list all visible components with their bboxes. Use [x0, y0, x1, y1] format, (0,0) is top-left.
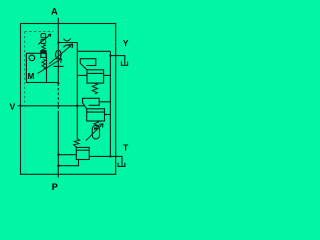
arrow2 through variable orifice [49, 44, 73, 64]
dashed inner box top edge [25, 30, 54, 32]
cartridge valve 2: flag [83, 98, 100, 109]
valve1 left port line [77, 74, 87, 76]
valve3 feed line from P [58, 154, 76, 156]
svg-text:P: P [52, 182, 58, 192]
closing bar below orifice [53, 65, 63, 67]
svg-text:V: V [10, 101, 16, 111]
Y tank symbol [121, 61, 127, 65]
dashed inner box left edge (upper) [24, 31, 26, 106]
M-box bottom edge extension to main line [47, 82, 59, 84]
dashed inner box left edge (lower, faint) [24, 106, 26, 174]
svg-text:A: A [51, 6, 58, 16]
main line solid lower section to P [57, 112, 59, 178]
V port line [18, 105, 85, 107]
solenoid element on box top [41, 51, 46, 58]
valve3 bottom return to P-line [58, 160, 78, 166]
main valve 3: body [76, 147, 89, 159]
valve2 pilot connector to riser [99, 101, 110, 103]
small variable orifice above M-box (arcs) [41, 34, 46, 38]
outer manifold box [21, 24, 116, 175]
main line dashed pilot section [57, 83, 59, 112]
valve1 spring [92, 83, 97, 94]
pilot supply branch from A-line [58, 42, 77, 44]
T drain line [89, 156, 122, 166]
node A stub + main A/P vertical line (solid upper) [57, 18, 59, 84]
indicator circle O [29, 55, 35, 61]
svg-text:M: M [28, 72, 35, 81]
valve2 solenoid adjust arrow [86, 124, 103, 141]
motor box M [26, 53, 46, 82]
svg-text:T: T [123, 143, 129, 153]
spring above M-box [42, 44, 45, 52]
riser-left vertical [76, 43, 78, 140]
valve3 spring (slanted) [74, 139, 80, 147]
pilot rail horizontal L1 [77, 50, 110, 52]
valve2 right port line [105, 114, 111, 116]
T tank symbol [118, 163, 125, 167]
fixed orifice on branch (arcs) [64, 39, 71, 48]
valve2 spring [94, 121, 99, 127]
variable orifice on A-line (arcs) [55, 50, 61, 59]
riser-right vertical [109, 51, 111, 156]
arrow1 from M-box [38, 59, 62, 74]
svg-text:Y: Y [123, 38, 129, 48]
spring inside M-box [42, 59, 45, 68]
valve1 right port line [104, 74, 111, 76]
arrow of small orifice [38, 34, 51, 44]
cartridge valve 1: flag [80, 59, 96, 70]
valve2 proportional solenoid capsule [92, 126, 99, 139]
junction dots [57, 42, 111, 167]
cartridge valve 1: body [87, 70, 104, 83]
cartridge valve 2: body [87, 109, 105, 121]
Y drain line [110, 56, 124, 65]
